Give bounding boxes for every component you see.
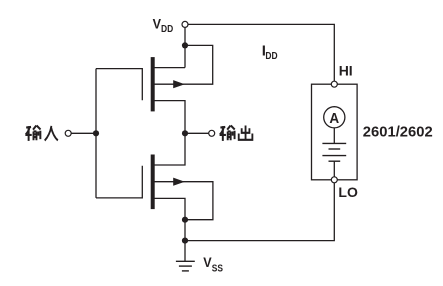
wire VDD stem down to M1 source lead <box>184 24 186 67</box>
wire M2 drain lead from output node <box>154 133 185 165</box>
wire output node to terminal <box>185 132 212 134</box>
battery V1 plate long <box>322 155 346 157</box>
terminal output open circle <box>209 130 215 136</box>
transistor M1 body arrow <box>173 80 185 88</box>
label input 输 (hand-drawn glyph) <box>25 126 40 141</box>
node VSS rail junction dot <box>182 238 188 244</box>
wire M1 body loop to VDD node <box>154 45 213 84</box>
battery V1 plate short bottom <box>329 160 341 162</box>
node VDD junction dot <box>182 42 188 48</box>
wire input terminal to gate bus <box>70 132 96 134</box>
label output 出 (hand-drawn glyph) <box>239 126 253 140</box>
svg-text:SS: SS <box>212 263 223 274</box>
wire M2 body loop to source node <box>154 182 213 220</box>
svg-text:HI: HI <box>339 63 353 79</box>
terminal HI open circle <box>331 81 337 87</box>
svg-text:2601/2602: 2601/2602 <box>363 123 433 140</box>
wire ammeter to battery <box>333 128 335 143</box>
wire VSS spine <box>184 220 186 241</box>
terminal LO open circle <box>331 177 337 183</box>
wire M2 source lead down to VSS node <box>154 198 185 219</box>
wire ground stem <box>184 241 186 261</box>
svg-text:DD: DD <box>161 24 173 35</box>
wire M1 source lead <box>154 67 185 69</box>
label output 输 (hand-drawn glyph) <box>220 126 235 141</box>
svg-text:LO: LO <box>338 184 358 200</box>
terminal VDD open circle <box>182 21 188 27</box>
wire battery to LO <box>333 161 335 177</box>
wire gate bus input <box>95 69 97 198</box>
transistor M2 body arrow <box>173 178 185 186</box>
wire M1 drain lead down to output node <box>154 101 185 134</box>
node output junction dot <box>182 130 188 136</box>
svg-text:DD: DD <box>265 51 277 62</box>
svg-text:A: A <box>329 111 339 127</box>
node input junction dot <box>93 130 99 136</box>
battery V1 plate long top <box>322 142 346 144</box>
wire bottom rail to LO <box>185 183 334 241</box>
node M2 source junction dot <box>182 217 188 223</box>
terminal input open circle <box>65 130 71 136</box>
label input 入 (hand-drawn glyph) <box>45 126 58 141</box>
ground symbol <box>176 261 195 271</box>
ammeter A1 circle <box>324 107 345 128</box>
battery V1 plate short <box>329 148 341 150</box>
wire M2 gate lead and gate plate <box>96 166 142 198</box>
transistor M2 channel bar <box>151 155 155 210</box>
SMU box 2601/2602 <box>312 84 358 180</box>
wire top rail VDD to HI <box>185 24 334 81</box>
wire M1 gate lead and gate plate <box>96 69 142 101</box>
transistor M1 channel bar <box>151 57 155 111</box>
